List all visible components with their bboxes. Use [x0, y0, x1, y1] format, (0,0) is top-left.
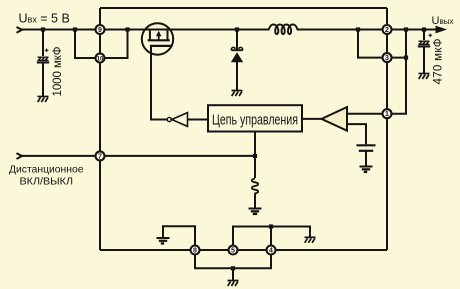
input arrow Uvx — [17, 27, 23, 33]
wire: gate wire from MOSFET to inverter — [151, 46, 167, 120]
wire: pin3 parallel loop — [358, 30, 406, 58]
transistor Q1 p-MOSFET circle — [142, 23, 173, 54]
wire: main output rail to Uvyx arrow — [297, 29, 437, 31]
node: junction diode/rail — [235, 27, 239, 31]
node: junction pin4 bracket — [269, 224, 273, 228]
diode VD1 Schottky cathode bar — [231, 49, 242, 51]
capacitor C3 bottom plate — [359, 150, 373, 152]
capacitor C3 top plate — [357, 144, 376, 146]
wire: left vertical through pins 9,10,7 — [99, 8, 101, 250]
node: junction C2/rail — [422, 27, 426, 31]
svg-text:9: 9 — [98, 27, 102, 34]
svg-text:5: 5 — [231, 248, 235, 255]
wire: top bus from pin 9 to pin 2 — [100, 7, 387, 9]
wire: bottom bus through pins 8,5,4 — [100, 249, 387, 251]
Q1 gate bar — [150, 45, 172, 47]
pin 5 — [229, 246, 238, 255]
node: junction feedback — [404, 56, 408, 60]
wire: diode VD1 branch vertical — [236, 30, 238, 91]
wire: main input rail Uvx — [22, 29, 270, 31]
capacitor C1 1000uF electrolytic top plate (hatched) — [38, 57, 49, 61]
svg-text:Uвых: Uвых — [432, 15, 454, 27]
svg-text:2: 2 — [385, 27, 389, 34]
control box — [208, 105, 302, 131]
pin 4 — [267, 246, 276, 255]
svg-text:8: 8 — [193, 248, 197, 255]
ground (earth) left bracket — [157, 238, 170, 243]
pin 3 — [383, 53, 392, 62]
node: junction pin10 loop left — [73, 27, 77, 31]
svg-text:Uвх = 5 В: Uвх = 5 В — [19, 12, 70, 26]
Q1 channel bar — [148, 39, 170, 41]
wire: C3 to ground — [365, 152, 367, 166]
wire: control box down to resistor R1 — [254, 132, 256, 179]
input arrow remote on/off — [17, 153, 23, 159]
wire: lower loop to chassis ground — [232, 268, 234, 280]
C1 plus sign — [45, 49, 49, 53]
svg-text:7: 7 — [98, 153, 102, 160]
resistor R1 zigzag — [252, 179, 258, 195]
wire: inverter to control box — [188, 119, 209, 121]
svg-text:10: 10 — [97, 57, 104, 63]
node: junction pin3 loop right — [404, 27, 408, 31]
wire: amplifier bottom input to capacitor C3 — [347, 124, 366, 144]
op-amp U3 triangle — [322, 107, 348, 131]
VD1 cathode curls — [231, 47, 242, 50]
VD1 anode triangle — [231, 52, 243, 62]
inverter U2 triangle — [172, 113, 188, 127]
pin 8 — [191, 246, 200, 255]
node: junction lower loop ground — [231, 266, 235, 270]
pin 2 — [383, 25, 392, 34]
wire: bracket from pin 5 over pin 4 to chassis ground — [233, 227, 310, 251]
wire: lower loop under pins 8,5,4 — [195, 250, 271, 268]
node: junction pin3 loop left — [356, 27, 360, 31]
output arrow Uvyx — [436, 26, 446, 32]
ground (earth) below C3 — [360, 167, 373, 172]
C2 plus sign — [429, 34, 433, 38]
ground (chassis) right bracket — [305, 237, 316, 243]
wire: pin 4 up to bracket — [270, 227, 272, 251]
svg-text:3: 3 — [385, 55, 389, 62]
wire: resistor R1 to ground — [254, 194, 256, 208]
svg-text:Цепь управления: Цепь управления — [212, 112, 298, 128]
node: junction C1/rail — [41, 27, 45, 31]
wire: control box to amplifier output — [302, 118, 322, 120]
pin 9 — [96, 25, 105, 34]
svg-text:470 мкФ: 470 мкФ — [432, 38, 444, 84]
wire: capacitor C1 branch vertical — [42, 30, 44, 97]
capacitor C2 470uF electrolytic top plate (hatched) — [419, 41, 430, 45]
wire: bracket from ground to pin 8 — [163, 226, 195, 250]
wire: amplifier top input to pin 1 — [347, 113, 387, 115]
node: junction resistor/remote wire — [253, 154, 257, 158]
capacitor C2 bottom plate — [418, 45, 430, 47]
node: junction pin10 loop right — [125, 27, 129, 31]
pin 1 — [383, 109, 392, 118]
ground (chassis) below C1 — [38, 97, 49, 103]
inverter U2 bubble — [167, 117, 171, 121]
ground (chassis) below diode VD1 — [232, 91, 243, 97]
wire: pin10 parallel loop — [75, 30, 128, 59]
svg-text:Дистанционное: Дистанционное — [9, 165, 84, 176]
Q1 drain stub — [167, 30, 169, 41]
wire: remote on/off input to pin 7 and to resistor node — [22, 155, 256, 157]
ground (chassis) below lower loop — [228, 281, 239, 287]
capacitor C1 bottom plate — [37, 61, 49, 63]
Q1 substrate arrow — [158, 34, 160, 40]
ground (chassis) below C2 — [419, 74, 430, 80]
pin 7 — [96, 151, 105, 160]
svg-text:1000 мкФ: 1000 мкФ — [52, 46, 64, 96]
wire: capacitor C2 branch vertical — [423, 30, 425, 74]
ground (earth) below resistor R1 — [249, 209, 262, 214]
wire: feedback from pin1 up to output rail — [387, 58, 406, 114]
svg-text:4: 4 — [269, 248, 273, 255]
inductor L1 — [269, 25, 298, 35]
pin 10 — [96, 54, 105, 63]
wire: right vertical through pins 2,3,1 — [386, 8, 388, 250]
svg-text:1: 1 — [385, 111, 389, 118]
Q1 source stub — [149, 30, 151, 41]
svg-text:ВКЛ/ВЫКЛ: ВКЛ/ВЫКЛ — [20, 176, 74, 188]
